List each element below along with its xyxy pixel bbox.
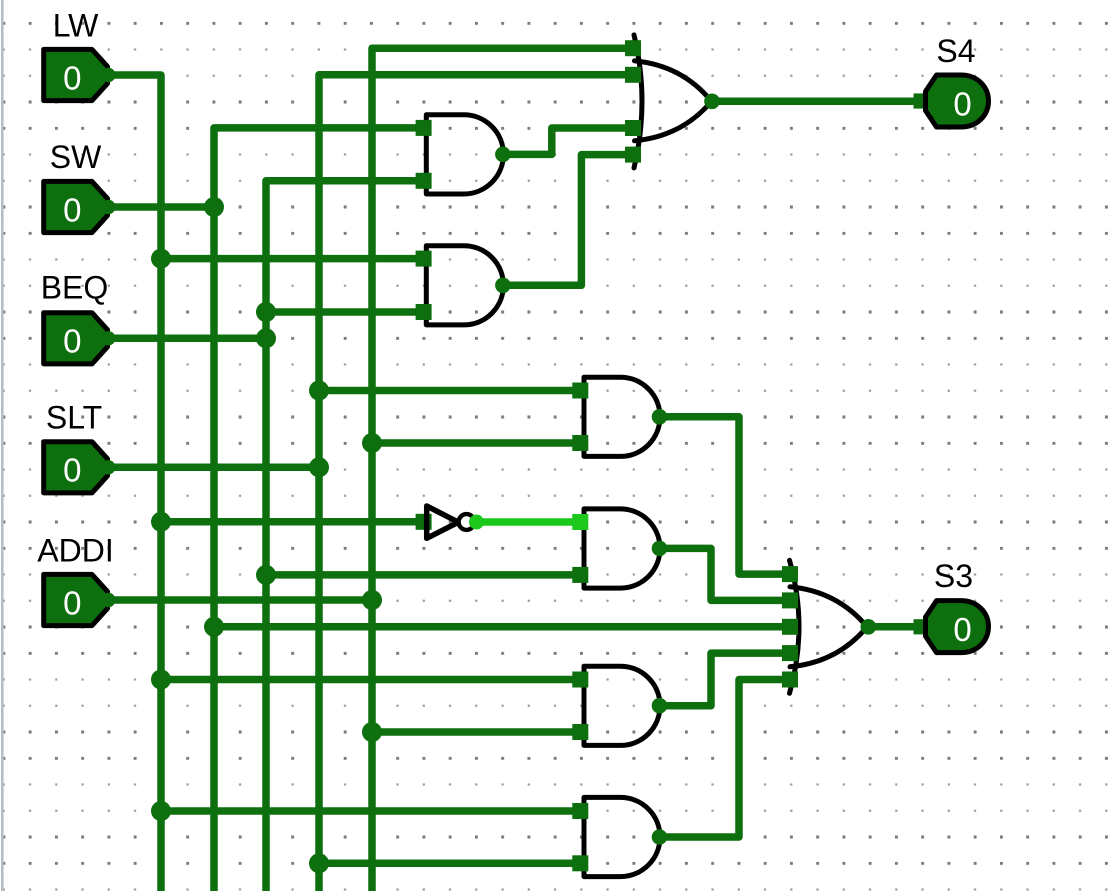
wire AND6 out to OR S3 in5: [660, 680, 792, 838]
pin stub OR S3 in5: [782, 672, 798, 688]
node ADDI pin junction: [362, 590, 382, 610]
output pin S3: [926, 601, 989, 653]
node AND5 out: [652, 698, 668, 714]
pin stub AND4 in1 (high, bright): [572, 514, 588, 530]
wire B3 branch to AND4 in2: [266, 571, 581, 579]
wire bus B3 with top corner to AND1 in2: [266, 181, 424, 891]
node B2 to long wire: [204, 617, 224, 637]
input pin SW: [44, 181, 116, 232]
node AND1 out: [495, 147, 511, 163]
input pin ADDI: [44, 574, 116, 625]
node B5 to AND3 in2: [362, 433, 382, 453]
pin stub AND6 in2: [572, 855, 588, 871]
svg-text:0: 0: [63, 584, 81, 621]
svg-text:S4: S4: [936, 33, 975, 69]
node BEQ pin junction: [256, 328, 276, 348]
gates: [426, 35, 867, 877]
wire BEQ pin stub: [106, 335, 266, 343]
pin stub OR S3 in2: [782, 592, 798, 608]
node AND2 out: [495, 278, 511, 294]
and-gate AND1: [426, 115, 503, 194]
wire B5 branch to AND3 in2: [372, 439, 581, 447]
or-gate S3 body: [790, 587, 867, 667]
pin stub AND3 in1: [572, 383, 588, 399]
svg-text:0: 0: [953, 86, 971, 123]
node B4 to AND3 in1: [309, 381, 329, 401]
wire SW pin stub: [106, 203, 214, 211]
wire bus B5 with top corner to OR S4 in1: [372, 48, 634, 891]
svg-text:0: 0: [953, 611, 971, 648]
wire bus B4 with top corner to OR S4 in2: [319, 75, 634, 891]
node SW pin junction: [204, 197, 224, 217]
pin stub OR S3 in1: [782, 566, 798, 582]
pin stub AND3 in2: [572, 435, 588, 451]
wire B5 branch to AND5 in2: [372, 728, 581, 736]
svg-text:SLT: SLT: [46, 400, 102, 436]
or-gate S4 back arc: [634, 35, 642, 168]
wire AND3 out to OR S3 in1: [660, 417, 792, 574]
node NOT1 out (high): [469, 515, 484, 530]
wire AND4 out to OR S3 in2: [660, 548, 792, 600]
pin stub AND1 in2: [416, 173, 432, 189]
pin stub AND5 in1: [572, 672, 588, 688]
wire B1 branch to AND5 in1: [161, 676, 581, 684]
node AND3 out: [652, 409, 668, 425]
output pin S3 connector stub: [914, 619, 926, 634]
node B5 to AND5 in2: [362, 722, 382, 742]
input pin BEQ: [44, 313, 116, 364]
wire AND1 out to OR S4 in3: [503, 128, 634, 154]
and-gate AND6: [584, 797, 660, 876]
window left edge line: [1, 0, 4, 891]
node B1 to NOT in: [151, 512, 171, 532]
and-gate AND5: [584, 666, 660, 745]
node SLT pin junction: [309, 457, 329, 477]
pin stub NOT in (under triangle): [416, 514, 432, 530]
wire AND2 out to OR S4 in4: [503, 155, 634, 286]
wire bus B2 with top corner to AND1 in1: [214, 128, 424, 891]
node B3 to AND4 in2: [256, 565, 276, 585]
svg-text:LW: LW: [53, 8, 99, 44]
wire B2 branch long wire to OR S3 in3: [214, 623, 791, 631]
node B1 to AND2 in1: [151, 249, 171, 269]
wire B3 branch to AND2 in2: [266, 308, 424, 316]
input pin SLT: [44, 442, 116, 493]
and-gate AND2: [426, 246, 503, 325]
node OR S3 out: [861, 619, 877, 635]
node B4 to AND6 in2: [309, 853, 329, 873]
wire B4 branch to AND6 in2: [319, 860, 581, 868]
pin stub AND2 in2: [416, 304, 432, 320]
output pin S4 connector stub: [914, 93, 926, 108]
output pin S4: [926, 75, 989, 127]
svg-text:BEQ: BEQ: [41, 270, 109, 306]
svg-text:ADDI: ADDI: [37, 533, 113, 569]
wire SLT pin stub: [106, 464, 319, 472]
wire OR S4 out to S4 pin: [712, 98, 919, 106]
wire B4 branch to AND3 in1: [319, 387, 581, 395]
pin stub OR S4 in3: [625, 120, 641, 136]
pin stub AND2 in1: [416, 251, 432, 267]
wire NOT out to AND4 in1 (high, bright): [474, 518, 581, 526]
and-gate AND4: [584, 509, 660, 588]
pin stub OR S4 in4: [625, 147, 641, 163]
svg-text:0: 0: [63, 59, 81, 96]
pin stub OR S4 in1: [625, 40, 641, 56]
svg-text:S3: S3: [934, 558, 973, 594]
wire ADDI pin stub: [106, 596, 372, 604]
node B1 to AND6 in1: [151, 801, 171, 821]
svg-text:0: 0: [63, 452, 81, 489]
input pin LW: [44, 49, 116, 100]
node AND6 out: [652, 829, 668, 845]
and-gate AND3: [584, 377, 660, 456]
wire B1 branch to AND2 in1: [161, 255, 424, 263]
wire OR S3 out to S3 pin: [868, 623, 919, 631]
pin stub AND5 in2: [572, 724, 588, 740]
svg-text:0: 0: [63, 191, 81, 228]
node B3 to AND2 in2: [256, 302, 276, 322]
node B1 to AND5 in1: [151, 670, 171, 690]
wire B1 branch to NOT in: [161, 518, 420, 526]
gate input stubs (low): [416, 40, 798, 871]
svg-text:SW: SW: [50, 139, 102, 175]
pin stub AND1 in1: [416, 120, 432, 136]
pin stub AND4 in2: [572, 567, 588, 583]
pin stub OR S3 in3: [782, 619, 798, 635]
svg-text:0: 0: [63, 323, 81, 360]
or-gate S4 body: [635, 61, 712, 141]
not-gate NOT1 bubble: [459, 514, 475, 530]
node OR S4 out: [704, 94, 720, 110]
node AND4 out: [652, 541, 668, 557]
wire B1 branch to AND6 in1: [161, 807, 581, 815]
pin stub OR S3 in4: [782, 645, 798, 661]
wire AND5 out to OR S3 in4: [660, 653, 792, 706]
wire LW pin to bus B1 and bus B1 down: [106, 75, 161, 891]
not-gate NOT1 triangle: [427, 506, 459, 538]
pin stub AND6 in1: [572, 803, 588, 819]
or-gate S3 back arc: [790, 560, 800, 693]
pin stub OR S4 in2: [625, 67, 641, 83]
